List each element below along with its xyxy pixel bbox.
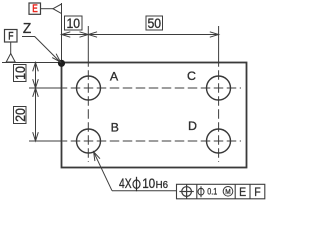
wire: extension line column A-B (upward) — [87, 26, 89, 63]
leader Z — [22, 37, 60, 63]
svg-text:C: C — [187, 69, 196, 83]
wire: extension line of top edge (leftward) — [2, 62, 62, 64]
datum E symbol box — [29, 3, 41, 14]
svg-text:0.1: 0.1 — [207, 187, 217, 198]
hole C — [207, 76, 231, 100]
svg-text:F: F — [254, 185, 261, 199]
modifier circled M — [223, 187, 233, 197]
datum F symbol box — [5, 30, 18, 43]
svg-text:H6: H6 — [156, 180, 169, 191]
feature control frame — [177, 184, 265, 199]
svg-text:10: 10 — [12, 66, 28, 80]
plate outline — [62, 63, 247, 168]
svg-text:E: E — [239, 185, 246, 199]
node Z (corner point) — [58, 60, 65, 67]
dimension value 20 (boxed, left, rotated) — [14, 107, 27, 124]
leader datum E — [41, 8, 54, 10]
datum E triangle — [53, 4, 62, 14]
centerline row A-C — [63, 87, 242, 89]
svg-text:M: M — [225, 187, 230, 196]
svg-text:B: B — [111, 120, 119, 134]
leader note 4X holes (arrow to hole B) — [94, 152, 112, 191]
wire: extension line at corner Z (upward to datum E) — [61, 3, 63, 63]
svg-text:E: E — [32, 3, 38, 15]
wire: extension line column C-D (upward) — [218, 26, 220, 63]
svg-text:F: F — [8, 31, 13, 43]
leader datum F — [10, 42, 12, 54]
svg-text:50: 50 — [148, 15, 162, 31]
svg-text:Z: Z — [23, 21, 32, 37]
position symbol — [182, 187, 192, 197]
svg-text:10: 10 — [142, 175, 155, 191]
dimension 10 line (top) — [62, 34, 89, 36]
dimension 10/20 line (left vertical) — [35, 63, 37, 142]
svg-text:4X: 4X — [119, 175, 132, 191]
centerline row B-D — [63, 140, 242, 142]
wire: extension line row A (leftward) — [29, 87, 62, 89]
datum F triangle — [6, 54, 15, 63]
svg-text:D: D — [188, 119, 197, 133]
dimension 50 line (top) — [88, 34, 218, 36]
svg-text:20: 20 — [12, 108, 28, 122]
centerline column A-B — [87, 63, 89, 163]
dimension value 10 (boxed, left, rotated) — [14, 65, 27, 82]
hole A — [77, 76, 101, 100]
wire: extension line row B (leftward) — [29, 140, 62, 142]
centerline column C-D — [218, 63, 220, 163]
hole D — [207, 129, 231, 153]
hole B — [77, 129, 101, 153]
dimension value 50 (boxed, top) — [146, 16, 163, 30]
svg-text:10: 10 — [67, 15, 81, 31]
tolerance value phi 0.1 — [198, 188, 204, 195]
svg-text:A: A — [110, 69, 119, 83]
dimension value 10 (boxed, top) — [65, 16, 83, 30]
